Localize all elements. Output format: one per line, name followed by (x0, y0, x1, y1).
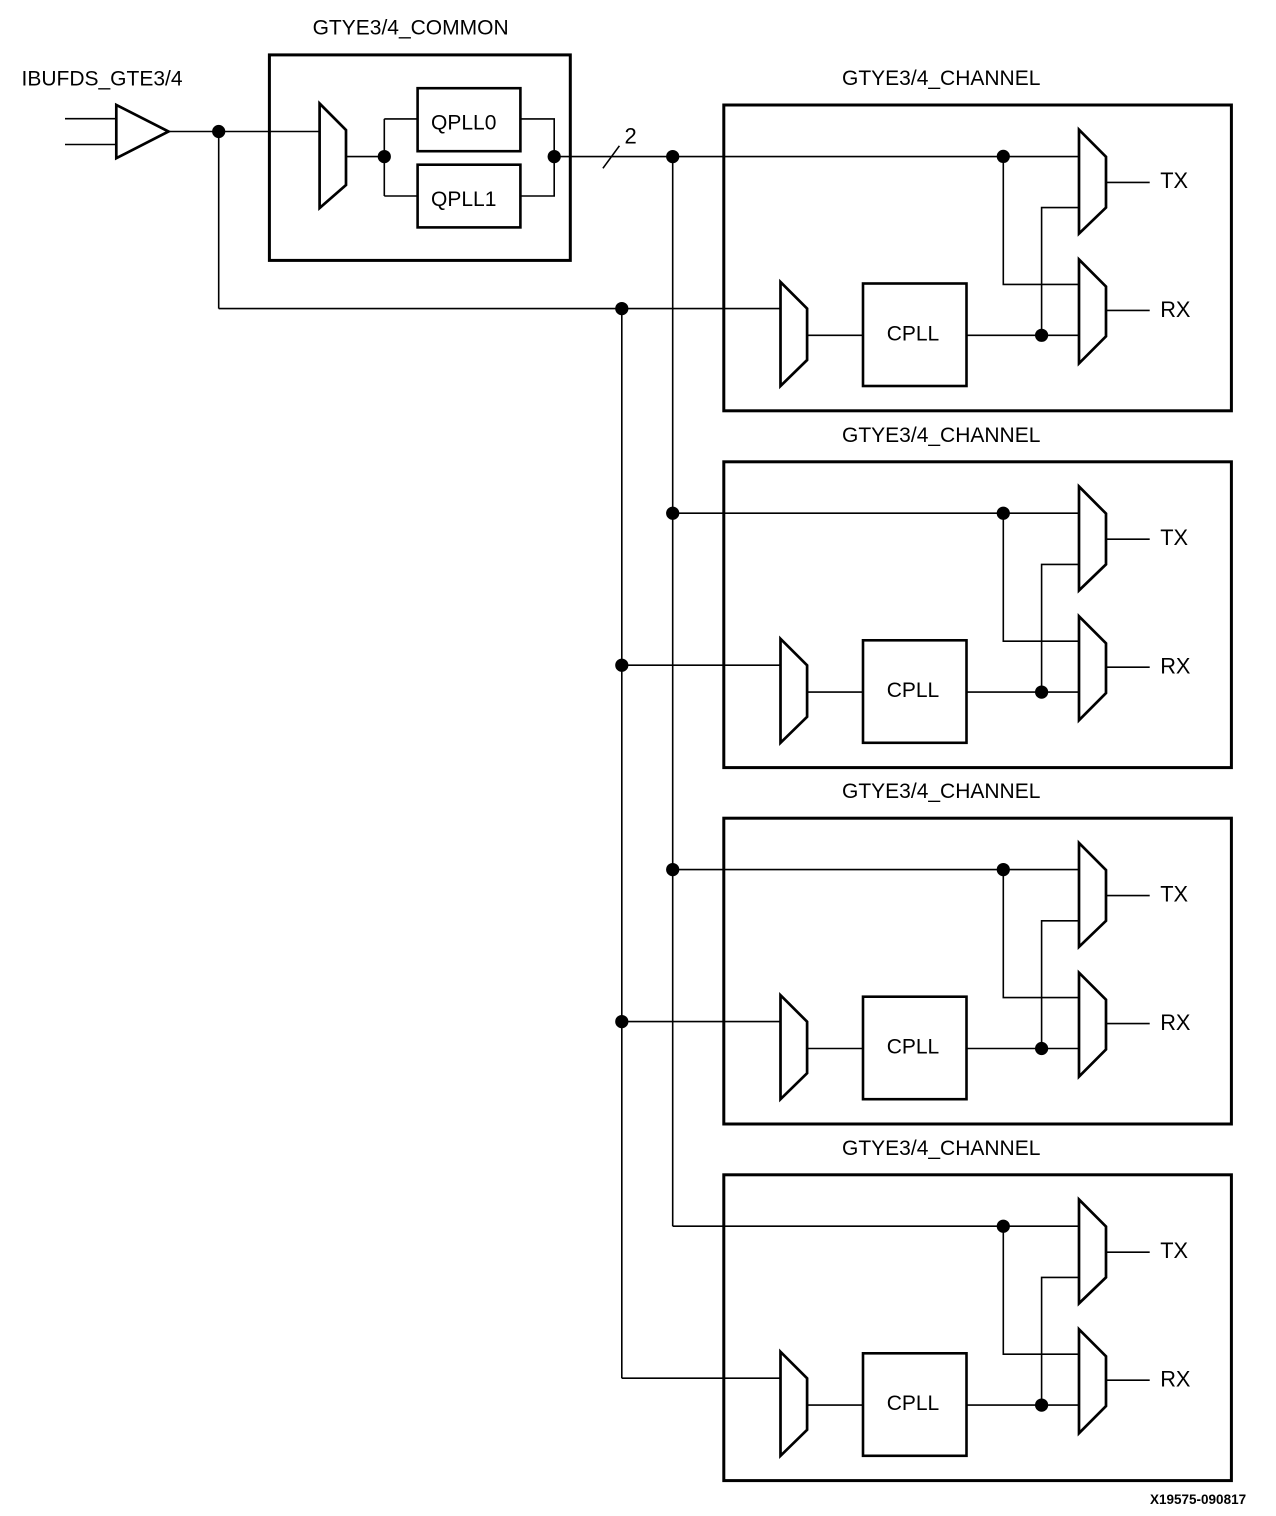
wire trunk2 IBUFDS clock vertical (621, 309, 623, 1379)
wire RX output channel 4 (1106, 1379, 1150, 1381)
wire TX output channel 4 (1106, 1251, 1150, 1253)
node refclk junction A (212, 125, 225, 138)
mux RX channel 3 (1079, 973, 1106, 1077)
svg-text:RX: RX (1160, 1367, 1191, 1392)
wire refclk into channel 4 (622, 1377, 781, 1379)
mux TX channel 4 (1079, 1200, 1106, 1304)
wire CPLL mux output channel 2 (807, 691, 863, 693)
wire QPLL clock into channel 2 (673, 512, 1079, 514)
wire TX mux lower input channel 4 (1042, 1277, 1079, 1405)
wire refclk into channel 3 (622, 1021, 781, 1023)
wire QPLL input bracket (384, 119, 417, 196)
wire refclk horizontal to channel 1 (219, 308, 781, 310)
node CPLL clock junction channel 3 (1035, 1042, 1048, 1055)
svg-text:GTYE3/4_COMMON: GTYE3/4_COMMON (313, 17, 509, 40)
mux TX channel 3 (1079, 843, 1106, 947)
wire QPLL output bracket (520, 119, 554, 196)
wire RX output channel 3 (1106, 1023, 1150, 1025)
wire TX output channel 2 (1106, 538, 1150, 540)
block GTYE3/4_CHANNEL 2 box (724, 462, 1232, 768)
node trunk2 tap channel 1 (615, 302, 628, 315)
wire CPLL mux output channel 1 (807, 334, 863, 336)
svg-text:CPLL: CPLL (887, 1036, 940, 1059)
wire QPLL clock to RX mux channel 3 (1003, 870, 1079, 998)
svg-text:CPLL: CPLL (887, 322, 940, 345)
block CPLL box channel 1 (863, 284, 967, 387)
wire TX mux lower input channel 1 (1042, 208, 1079, 336)
svg-text:TX: TX (1160, 1238, 1188, 1263)
wire TX mux lower input channel 2 (1042, 564, 1079, 692)
wire QPLL clock into channel 3 (673, 869, 1079, 871)
wire CPLL mux output channel 4 (807, 1404, 863, 1406)
node QPLL clock junction channel 2 (997, 507, 1010, 520)
svg-text:X19575-090817: X19575-090817 (1150, 1492, 1246, 1507)
node trunk1 tap channel 3 (666, 863, 679, 876)
svg-text:CPLL: CPLL (887, 1392, 940, 1415)
node QPLL output junction (548, 150, 561, 163)
wire CPLL output channel 3 (967, 1048, 1080, 1050)
block CPLL box channel 3 (863, 997, 967, 1099)
buffer U1 IBUFDS_GTE3/4 (116, 105, 168, 158)
mux RX channel 2 (1079, 616, 1106, 720)
wire TX mux lower input channel 3 (1042, 921, 1079, 1049)
block QPLL1 box (418, 165, 521, 228)
node trunk2 tap channel 3 (615, 1015, 628, 1028)
node CPLL clock junction channel 2 (1035, 686, 1048, 699)
node CPLL clock junction channel 4 (1035, 1399, 1048, 1412)
wire CPLL output channel 4 (967, 1404, 1080, 1406)
block GTYE3/4_COMMON box (269, 55, 570, 261)
wire RX output channel 1 (1106, 309, 1150, 311)
mux RX channel 1 (1079, 260, 1106, 364)
node trunk1 tap top (666, 150, 679, 163)
svg-text:TX: TX (1160, 881, 1188, 906)
svg-text:GTYE3/4_CHANNEL: GTYE3/4_CHANNEL (842, 780, 1040, 803)
wire QPLL clock bus to channel 1 (554, 156, 1079, 158)
wire QPLL clock to RX mux channel 4 (1003, 1226, 1079, 1354)
node QPLL input junction (378, 150, 391, 163)
mux RX channel 4 (1079, 1329, 1106, 1433)
block GTYE3/4_CHANNEL 3 box (724, 818, 1232, 1124)
mux CPLL input channel 3 (781, 995, 808, 1099)
svg-text:IBUFDS_GTE3/4: IBUFDS_GTE3/4 (22, 68, 183, 91)
svg-text:RX: RX (1160, 297, 1191, 322)
wire trunk1 QPLL clock vertical (672, 157, 674, 1227)
mux M0 common reference mux (320, 104, 346, 209)
wire QPLL clock to RX mux channel 2 (1003, 513, 1079, 641)
node trunk1 tap channel 2 (666, 507, 679, 520)
bus width slash marker (603, 146, 620, 169)
svg-text:GTYE3/4_CHANNEL: GTYE3/4_CHANNEL (842, 424, 1040, 447)
wire buffer output (169, 131, 321, 133)
wire TX output channel 3 (1106, 895, 1150, 897)
mux CPLL input channel 4 (781, 1352, 808, 1456)
wire TX output channel 1 (1106, 181, 1150, 183)
block QPLL0 box (418, 88, 521, 151)
wire mux M0 output (346, 156, 384, 158)
wire RX output channel 2 (1106, 666, 1150, 668)
svg-text:RX: RX (1160, 1010, 1191, 1035)
wire refclk vertical drop (218, 132, 220, 309)
svg-text:QPLL0: QPLL0 (431, 112, 496, 135)
wire QPLL clock into channel 4 (673, 1225, 1079, 1227)
wire CPLL output channel 2 (967, 691, 1080, 693)
mux TX channel 2 (1079, 487, 1106, 591)
block CPLL box channel 4 (863, 1353, 967, 1456)
node QPLL clock junction channel 3 (997, 863, 1010, 876)
svg-text:RX: RX (1160, 654, 1191, 679)
node CPLL clock junction channel 1 (1035, 329, 1048, 342)
node QPLL clock junction channel 4 (997, 1220, 1010, 1233)
mux CPLL input channel 1 (781, 282, 808, 386)
block CPLL box channel 2 (863, 640, 967, 743)
svg-text:GTYE3/4_CHANNEL: GTYE3/4_CHANNEL (842, 1137, 1040, 1160)
block GTYE3/4_CHANNEL 1 box (724, 105, 1232, 411)
svg-text:2: 2 (625, 123, 637, 148)
svg-text:CPLL: CPLL (887, 679, 940, 702)
svg-text:GTYE3/4_CHANNEL: GTYE3/4_CHANNEL (842, 67, 1040, 90)
node QPLL clock junction channel 1 (997, 150, 1010, 163)
wire QPLL clock to RX mux channel 1 (1003, 156, 1079, 284)
node trunk2 tap channel 2 (615, 659, 628, 672)
wire refclk into channel 2 (622, 664, 781, 666)
wire CPLL mux output channel 3 (807, 1048, 863, 1050)
svg-text:TX: TX (1160, 525, 1188, 550)
wire buffer input N (65, 144, 117, 146)
mux CPLL input channel 2 (781, 639, 808, 743)
block GTYE3/4_CHANNEL 4 box (724, 1175, 1232, 1481)
wire CPLL output channel 1 (967, 334, 1080, 336)
svg-text:TX: TX (1160, 168, 1188, 193)
svg-text:QPLL1: QPLL1 (431, 188, 496, 211)
mux TX channel 1 (1079, 130, 1106, 234)
wire buffer input P (65, 118, 117, 120)
